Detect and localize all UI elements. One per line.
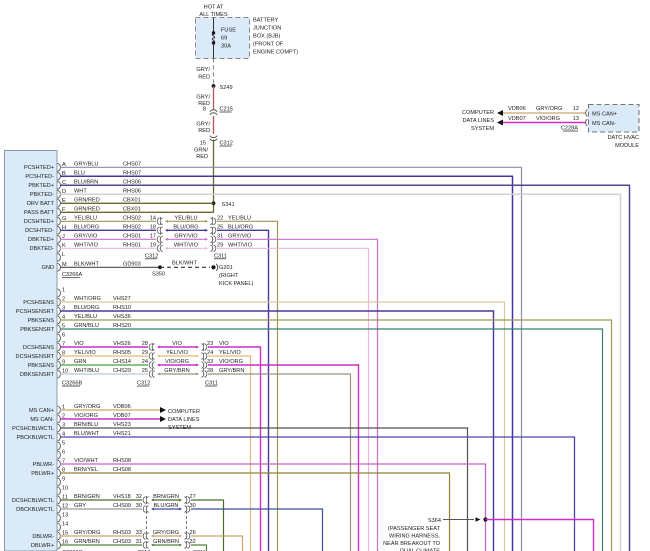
svg-text:31: 31: [136, 539, 142, 545]
svg-text:GD903: GD903: [123, 262, 141, 268]
wire GRY/RED (C215 to C312): [213, 116, 215, 134]
svg-text:CHS09: CHS09: [113, 503, 131, 509]
svg-text:CHS29: CHS29: [113, 368, 131, 374]
svg-text:GND: GND: [42, 265, 54, 271]
svg-text:CHS03: CHS03: [113, 539, 131, 545]
svg-text:VHS18: VHS18: [113, 494, 131, 500]
svg-text:S341: S341: [222, 202, 235, 208]
wire VDB07 VIO/ORG (DATC HVAC pin 13 to computer data lines): [497, 120, 503, 126]
svg-text:GRN/BRN: GRN/BRN: [153, 539, 179, 545]
svg-text:VDB06: VDB06: [508, 106, 526, 112]
pin 6 (not used, C3266B): [58, 334, 61, 342]
svg-text:VIO/ORG: VIO/ORG: [165, 359, 189, 365]
connector C311 column (group 1): [212, 217, 214, 252]
svg-text:BATTERY: BATTERY: [253, 18, 279, 24]
svg-text:SYSTEM: SYSTEM: [168, 425, 191, 431]
svg-text:6: 6: [62, 450, 65, 456]
svg-text:GRY/: GRY/: [196, 95, 210, 101]
battery junction box (BJB): [196, 18, 250, 59]
svg-text:29: 29: [217, 243, 223, 249]
svg-text:RED: RED: [196, 154, 208, 160]
svg-text:GRY/ORG: GRY/ORG: [74, 530, 100, 536]
svg-text:ENGINE COMPT): ENGINE COMPT): [253, 50, 298, 56]
svg-text:VIO/ORG: VIO/ORG: [536, 116, 560, 122]
svg-text:BRN/GRN: BRN/GRN: [153, 494, 179, 500]
connector C312 column (group 2): [152, 343, 154, 378]
svg-text:MS CAN+: MS CAN+: [592, 112, 617, 118]
pin L (not used): [58, 253, 61, 261]
pin 6 (not used, C3266C): [58, 451, 61, 459]
svg-text:RED: RED: [198, 75, 210, 81]
svg-text:PCSHCBLWCTL: PCSHCBLWCTL: [12, 426, 54, 432]
svg-text:(RIGHT: (RIGHT: [219, 273, 239, 279]
svg-text:WHT/BLU: WHT/BLU: [74, 368, 99, 374]
svg-text:32: 32: [136, 494, 142, 500]
svg-text:32: 32: [190, 539, 196, 545]
svg-text:17: 17: [150, 234, 156, 240]
wire BLK/WHT (S350 to G201, dashed): [160, 266, 210, 268]
svg-text:VDB06: VDB06: [113, 404, 131, 410]
svg-text:DCSHTED-: DCSHTED-: [25, 228, 54, 234]
svg-text:13: 13: [62, 513, 68, 519]
svg-text:DBCKBLWCTL: DBCKBLWCTL: [16, 507, 54, 513]
svg-text:PBLWR+: PBLWR+: [31, 471, 54, 477]
seat module connector panel (C3266A/B/C): [5, 151, 58, 551]
svg-text:VHS36: VHS36: [113, 314, 131, 320]
svg-text:PCSHTED-: PCSHTED-: [25, 174, 54, 180]
svg-text:24: 24: [207, 350, 213, 356]
pin 9 (not used, C3266C): [58, 478, 61, 486]
svg-text:GRN/RED: GRN/RED: [74, 198, 100, 204]
svg-text:RED: RED: [198, 128, 210, 134]
svg-text:DATA LINES: DATA LINES: [463, 118, 495, 124]
svg-text:GRY/VIO: GRY/VIO: [228, 234, 252, 240]
svg-text:33: 33: [136, 530, 142, 536]
svg-text:6: 6: [62, 333, 65, 339]
svg-text:DCSHSENS: DCSHSENS: [23, 345, 54, 351]
svg-text:30A: 30A: [221, 44, 231, 50]
splice S249: [212, 84, 216, 88]
wire VDB06 GRY/ORG (DATC HVAC pin 12 to computer data lines): [497, 110, 503, 116]
svg-text:13: 13: [573, 116, 579, 122]
svg-text:DBKSENSRT: DBKSENSRT: [20, 372, 55, 378]
svg-text:S350: S350: [152, 271, 165, 277]
svg-text:BLU/WHT: BLU/WHT: [74, 431, 100, 437]
svg-text:(FRONT OF: (FRONT OF: [253, 42, 284, 48]
svg-text:S249: S249: [220, 85, 233, 91]
svg-text:HOT AT: HOT AT: [204, 5, 224, 11]
svg-text:VDB07: VDB07: [508, 116, 526, 122]
svg-text:PCSHTED+: PCSHTED+: [24, 165, 54, 171]
svg-text:DBKTED-: DBKTED-: [29, 246, 54, 252]
svg-text:COMPUTER: COMPUTER: [168, 409, 200, 415]
svg-text:S364: S364: [428, 518, 441, 524]
connector C312 column (group 3): [146, 496, 148, 548]
svg-text:PCSHSENS: PCSHSENS: [23, 300, 54, 306]
svg-text:GRY/ORG: GRY/ORG: [153, 530, 179, 536]
svg-text:PBLWR-: PBLWR-: [33, 462, 54, 468]
svg-text:YEL/BLU: YEL/BLU: [174, 215, 197, 221]
pin 1 (not used, C3266B): [58, 289, 61, 297]
svg-text:15: 15: [200, 141, 206, 147]
svg-text:GRY/ORG: GRY/ORG: [536, 106, 562, 112]
svg-text:14: 14: [62, 522, 68, 528]
pin 5 (not used, C3266C): [58, 442, 61, 450]
svg-text:MS CAN-: MS CAN-: [30, 417, 54, 423]
svg-text:18: 18: [150, 225, 156, 231]
svg-text:GRN/BRN: GRN/BRN: [74, 539, 100, 545]
svg-text:DCSHSENSRT: DCSHSENSRT: [16, 354, 55, 360]
svg-text:BRN/GRN: BRN/GRN: [74, 494, 100, 500]
svg-text:C311: C311: [214, 253, 227, 259]
svg-text:DRV BATT: DRV BATT: [27, 201, 55, 207]
svg-text:C3266A: C3266A: [62, 272, 82, 278]
svg-text:WHT/VIO: WHT/VIO: [228, 243, 253, 249]
svg-text:GRY/: GRY/: [196, 67, 210, 73]
svg-text:PBCKBLWCTL: PBCKBLWCTL: [16, 435, 54, 441]
svg-text:GRY/BRN: GRY/BRN: [219, 368, 244, 374]
svg-text:10: 10: [62, 486, 68, 492]
svg-text:19: 19: [150, 243, 156, 249]
svg-text:30: 30: [190, 503, 196, 509]
svg-text:DBLWR-: DBLWR-: [32, 534, 54, 540]
svg-text:14: 14: [150, 216, 156, 222]
svg-text:31: 31: [217, 234, 223, 240]
svg-text:YEL/VIO: YEL/VIO: [74, 350, 96, 356]
svg-text:WHT/VIO: WHT/VIO: [174, 242, 199, 248]
svg-text:9: 9: [62, 477, 65, 483]
svg-text:RHS01: RHS01: [123, 243, 141, 249]
connector C312 pin 15: [210, 136, 217, 138]
svg-text:YEL/VIO: YEL/VIO: [166, 350, 188, 356]
svg-text:CHS07: CHS07: [123, 162, 141, 168]
pin 10 (not used, C3266C): [58, 487, 61, 495]
DATC HVAC pin 12 bracket: [586, 110, 588, 117]
svg-text:8: 8: [203, 107, 206, 113]
svg-text:VHS27: VHS27: [113, 296, 131, 302]
svg-text:WHT/VIO: WHT/VIO: [74, 243, 99, 249]
svg-text:GRY/BLU: GRY/BLU: [74, 162, 98, 168]
svg-text:26: 26: [190, 530, 196, 536]
svg-text:28: 28: [207, 368, 213, 374]
svg-text:DCSHCBLWCTL: DCSHCBLWCTL: [12, 498, 54, 504]
svg-text:PBKSENS: PBKSENS: [28, 318, 55, 324]
svg-text:GRY/BRN: GRY/BRN: [164, 368, 189, 374]
svg-text:PCSHSENSRT: PCSHSENSRT: [16, 309, 55, 315]
svg-text:PBKSENS: PBKSENS: [28, 363, 55, 369]
svg-text:29: 29: [142, 350, 148, 356]
svg-text:C312: C312: [220, 141, 233, 147]
svg-text:VHS21: VHS21: [113, 431, 131, 437]
wire VIO (S364 branch to dual climate): [486, 520, 594, 551]
svg-text:1: 1: [62, 288, 65, 294]
connector C312 column (group 1): [160, 217, 162, 252]
svg-text:RHS03: RHS03: [113, 530, 131, 536]
svg-text:RHS20: RHS20: [113, 323, 131, 329]
svg-text:24: 24: [142, 359, 148, 365]
svg-text:YEL/BLU: YEL/BLU: [74, 314, 97, 320]
svg-text:BLK/WHT: BLK/WHT: [172, 260, 197, 266]
svg-text:C215: C215: [220, 107, 233, 113]
svg-text:12: 12: [573, 106, 579, 112]
svg-text:BOX (BJB): BOX (BJB): [253, 34, 280, 40]
svg-text:BLU/ORG: BLU/ORG: [173, 224, 198, 230]
svg-text:25: 25: [142, 368, 148, 374]
svg-text:GRY/ORG: GRY/ORG: [74, 404, 100, 410]
svg-text:RHS05: RHS05: [113, 350, 131, 356]
svg-text:CHS02: CHS02: [123, 216, 141, 222]
svg-text:28: 28: [142, 341, 148, 347]
svg-text:PBKSENSRT: PBKSENSRT: [20, 327, 54, 333]
svg-text:CHS08: CHS08: [113, 467, 131, 473]
ground G201 (RIGHT KICK PANEL): [211, 265, 215, 269]
svg-text:(PASSENGER SEAT: (PASSENGER SEAT: [388, 526, 441, 532]
svg-text:CBX01: CBX01: [123, 198, 141, 204]
svg-text:DBLWR+: DBLWR+: [31, 543, 54, 549]
svg-text:C312: C312: [145, 253, 158, 259]
svg-text:SYSTEM: SYSTEM: [471, 126, 494, 132]
svg-text:YEL/BLU: YEL/BLU: [74, 216, 97, 222]
fuse F69 30A: [213, 18, 215, 34]
wire GRN/RED (C312 to S341): [213, 140, 215, 213]
splice S350: [158, 265, 162, 269]
svg-text:30: 30: [136, 503, 142, 509]
splice S341: [212, 201, 216, 205]
svg-text:WIRING HARNESS,: WIRING HARNESS,: [389, 534, 440, 540]
svg-text:22: 22: [217, 216, 223, 222]
svg-text:69: 69: [221, 36, 227, 42]
svg-text:5: 5: [62, 441, 65, 447]
wire GRY/RED (BJB to S249, dashed): [213, 59, 215, 85]
connector C311 column (group 3): [186, 496, 188, 548]
svg-text:RHS08: RHS08: [113, 458, 131, 464]
svg-text:PBKTED-: PBKTED-: [30, 192, 54, 198]
svg-text:C3266B: C3266B: [62, 381, 82, 387]
svg-text:PASS BATT: PASS BATT: [24, 210, 55, 216]
svg-text:GRN/RED: GRN/RED: [74, 207, 100, 213]
svg-text:DCSHTED+: DCSHTED+: [24, 219, 54, 225]
svg-text:C311: C311: [205, 381, 218, 387]
svg-text:GRY/VIO: GRY/VIO: [174, 233, 198, 239]
svg-text:CBX01: CBX01: [123, 207, 141, 213]
wire GRY/RED (S249 to C215): [213, 86, 215, 110]
connector C311 column (group 2): [203, 343, 205, 378]
svg-text:CHS14: CHS14: [113, 359, 131, 365]
svg-text:VIO/WHT: VIO/WHT: [74, 458, 99, 464]
svg-text:BRN/BLU: BRN/BLU: [74, 422, 98, 428]
svg-text:GRY: GRY: [74, 503, 86, 509]
svg-text:C228A: C228A: [561, 126, 578, 132]
svg-text:MS CAN-: MS CAN-: [592, 121, 616, 127]
svg-text:DATA LINES: DATA LINES: [168, 417, 200, 423]
svg-text:L: L: [62, 252, 65, 258]
svg-text:GRY/VIO: GRY/VIO: [74, 234, 98, 240]
svg-text:C312: C312: [137, 381, 150, 387]
svg-text:BLK/WHT: BLK/WHT: [74, 262, 99, 268]
svg-text:GRY/: GRY/: [196, 122, 210, 128]
pin 13 (not used, C3266C): [58, 514, 61, 522]
svg-text:FUSE: FUSE: [221, 28, 236, 34]
svg-text:KICK PANEL): KICK PANEL): [219, 281, 254, 287]
DATC HVAC module box: [589, 105, 640, 133]
svg-text:MODULE: MODULE: [615, 143, 639, 149]
svg-text:VHS23: VHS23: [113, 422, 131, 428]
svg-text:BRN/YEL: BRN/YEL: [74, 467, 98, 473]
svg-text:GRN/: GRN/: [194, 148, 208, 154]
svg-text:COMPUTER: COMPUTER: [462, 110, 494, 116]
svg-text:BLU/GRN: BLU/GRN: [154, 503, 179, 509]
pin 14 (not used, C3266C): [58, 523, 61, 531]
svg-text:GRN/BLU: GRN/BLU: [74, 323, 99, 329]
svg-text:GRN: GRN: [74, 359, 86, 365]
svg-text:CHS01: CHS01: [123, 234, 141, 240]
svg-text:DBKTED+: DBKTED+: [28, 237, 54, 243]
svg-text:MS CAN+: MS CAN+: [29, 408, 54, 414]
svg-text:YEL/VIO: YEL/VIO: [219, 350, 241, 356]
svg-text:YEL/BLU: YEL/BLU: [228, 216, 251, 222]
svg-text:NEAR BREAKOUT TO: NEAR BREAKOUT TO: [383, 541, 441, 547]
DATC HVAC pin 13 bracket: [586, 119, 588, 126]
svg-text:JUNCTION: JUNCTION: [253, 26, 281, 32]
svg-text:DATC HVAC: DATC HVAC: [608, 135, 640, 141]
svg-text:WHT/ORG: WHT/ORG: [74, 296, 101, 302]
svg-text:27: 27: [190, 494, 196, 500]
svg-text:VIO: VIO: [172, 341, 182, 347]
svg-text:G201: G201: [219, 265, 233, 271]
svg-text:PBKTED+: PBKTED+: [28, 183, 54, 189]
